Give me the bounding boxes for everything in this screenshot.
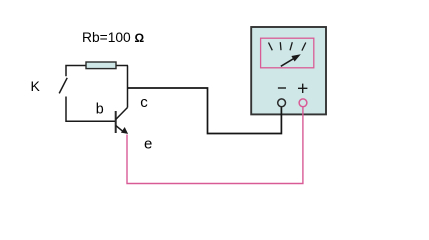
svg-text:Rb=100 Ω: Rb=100 Ω [82,30,145,45]
meter needle arrowhead [291,54,300,61]
meter U1 body [251,27,326,114]
wire: switch bottom contact down and across to transistor base [66,97,116,122]
meter minus sign [278,87,286,89]
switch K blade [59,78,67,94]
svg-text:c: c [140,94,148,111]
meter plus sign [298,84,307,93]
transistor Q1 emitter arrowhead [121,127,128,134]
wire: switch top contact up and across to resistor [66,66,128,77]
transistor Q1 collector stroke [116,108,128,120]
meter plus terminal [299,99,307,107]
wire: right vertical of loop down to collector elbow [127,66,129,108]
transistor Q1 base bar [115,111,117,133]
transistor Q1 emitter stroke [116,126,123,131]
meter needle [281,59,294,67]
meter U1 display window [261,38,314,68]
meter scale tick 4 [302,43,306,51]
svg-text:e: e [144,136,152,153]
wire: collector node to meter minus terminal [128,88,282,134]
svg-text:b: b [96,102,104,118]
resistor R1 [86,62,116,69]
meter scale tick 1 [269,43,273,51]
wire: emitter to meter plus terminal (pink) [127,104,303,184]
meter minus terminal [278,99,286,107]
meter scale tick 3 [290,42,292,50]
meter scale tick 2 [279,42,282,50]
svg-text:K: K [31,78,41,94]
